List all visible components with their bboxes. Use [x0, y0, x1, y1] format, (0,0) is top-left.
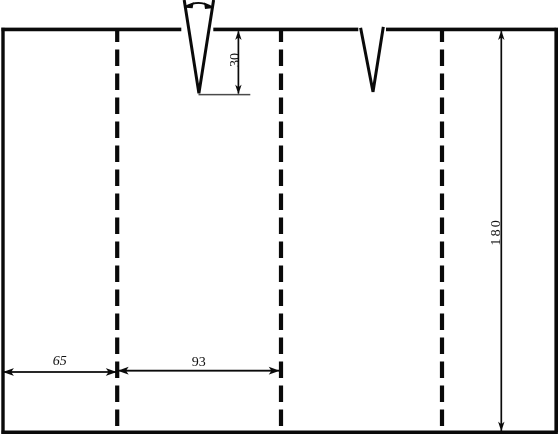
svg-text:93: 93 — [192, 355, 206, 370]
svg-text:180: 180 — [489, 218, 504, 246]
svg-text:30: 30 — [228, 53, 243, 67]
svg-text:65: 65 — [53, 354, 67, 369]
